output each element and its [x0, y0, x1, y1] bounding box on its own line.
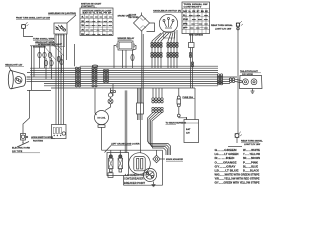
wire leader arrows	[52, 40, 62, 50]
wire ignition switch leads	[55, 34, 75, 125]
connector J2 harness plug column	[92, 67, 97, 87]
node label handlebar switch header	[48, 12, 76, 15]
contact breaker CB1	[143, 168, 156, 181]
lamp FL1 front turn signal	[22, 22, 29, 29]
svg-text:TURN SIGNAL WIRE: TURN SIGNAL WIRE	[33, 38, 55, 41]
ground engine	[152, 182, 156, 187]
node label spark advancer	[166, 158, 183, 161]
svg-text:ELECTRIC HORN: ELECTRIC HORN	[12, 148, 30, 150]
svg-text:BAT: BAT	[186, 128, 191, 131]
svg-text:FUSE 15A: FUSE 15A	[183, 96, 194, 99]
svg-text:REAR TURN SIGNAL: REAR TURN SIGNAL	[241, 140, 263, 143]
wire center drops to engine	[125, 31, 143, 153]
wire group B drops	[168, 30, 177, 68]
wire engine feed bundle	[148, 112, 171, 155]
generator source coils box	[107, 153, 129, 176]
lamp cluster indicator bulbs	[32, 46, 64, 91]
spark plug P1	[108, 88, 113, 104]
svg-text:BR……BROWN: BR……BROWN	[243, 158, 260, 160]
svg-text:W……WHITE: W……WHITE	[243, 150, 261, 152]
capacitor C1 condenser	[108, 173, 113, 178]
svg-text:Y……YELLOW: Y……YELLOW	[243, 154, 261, 156]
lamp TL1 tail stop light	[235, 76, 262, 89]
svg-text:2 o–o o–o o: 2 o–o o–o o	[81, 21, 114, 23]
svg-text:12V: 12V	[186, 133, 190, 135]
svg-text:WINKER RELAY: WINKER RELAY	[118, 37, 135, 40]
svg-text:CONT.BREAKER: CONT.BREAKER	[124, 177, 144, 181]
svg-text:TO MAIN HARNESS: TO MAIN HARNESS	[166, 122, 187, 125]
svg-text:SPARK ADVANCER: SPARK ADVANCER	[166, 158, 183, 161]
wire table2 drops	[189, 34, 195, 89]
fuse F1	[177, 88, 195, 120]
svg-text:LIGHT 12V 18W: LIGHT 12V 18W	[244, 144, 261, 146]
node label winker relay	[118, 37, 135, 40]
node label horn lower	[12, 148, 30, 153]
ignition coil T1	[95, 104, 111, 150]
engine right outline	[124, 150, 163, 185]
node label turn signal leaders	[33, 38, 64, 60]
svg-text:P……PINK: P……PINK	[243, 162, 258, 164]
svg-text:HANDLEBAR SWITCH (R): HANDLEBAR SWITCH (R)	[153, 10, 181, 13]
svg-text:5 o–o o o–o: 5 o–o o o–o	[81, 34, 114, 36]
svg-text:R o–o o: R o–o o	[183, 23, 210, 25]
svg-text:IG COIL: IG COIL	[98, 118, 107, 120]
wire bulb feeder	[30, 45, 56, 47]
svg-text:W/G……WHITE WITH GREEN STRIPE: W/G……WHITE WITH GREEN STRIPE	[215, 174, 261, 176]
svg-text:BL……BLUE: BL……BLUE	[243, 166, 258, 168]
svg-text:G/Y……GREEN WITH YELLOW STRIPE: G/Y……GREEN WITH YELLOW STRIPE	[215, 183, 260, 185]
connector J6 group B plugs	[167, 42, 178, 57]
node label rear turn signal right	[211, 24, 233, 30]
battery BT1	[184, 88, 199, 143]
node label tail brake light	[240, 70, 258, 76]
svg-text:GY……GRAY: GY……GRAY	[215, 165, 237, 168]
svg-text:L o–o o: L o–o o	[183, 15, 210, 17]
alternator G1 flywheel	[129, 153, 151, 175]
node label chart header	[81, 3, 102, 8]
lamp HL1 headlight	[8, 70, 25, 89]
svg-text:LB……LT BLUE: LB……LT BLUE	[215, 170, 240, 172]
svg-text:Y/R……YELLOW WITH RED STRIPE: Y/R……YELLOW WITH RED STRIPE	[215, 178, 261, 180]
wire headlight leads	[27, 77, 31, 81]
node label horn upper	[31, 137, 54, 142]
connector J3 harness plug column	[103, 69, 108, 82]
svg-text:WIRE HARNESS: WIRE HARNESS	[189, 33, 203, 36]
wire mid-right drops	[153, 88, 162, 98]
ground tail light	[251, 89, 255, 94]
wire horn drop	[23, 90, 30, 133]
connector J7 tail harness plugs	[217, 74, 234, 85]
svg-text:LEFT CRANKCASE COVER: LEFT CRANKCASE COVER	[111, 142, 140, 145]
svg-text:B……BLACK: B……BLACK	[243, 169, 259, 172]
node legend wire color codes	[215, 150, 261, 184]
svg-text:HEADLIGHT WIRE: HEADLIGHT WIRE	[35, 41, 55, 44]
svg-text:3 o–o–o o–o: 3 o–o–o o–o	[81, 25, 114, 27]
switch S1 ignition switch pictorial	[54, 23, 67, 34]
connector J4 drop plug	[111, 84, 116, 96]
horn H1	[21, 134, 28, 145]
table ignition continuity chart	[80, 8, 114, 36]
svg-text:P o o–o: P o o–o	[183, 28, 210, 30]
svg-text:G……GREEN: G……GREEN	[215, 150, 237, 152]
wire leader to ignition switch	[67, 15, 76, 23]
wire front turn signal to harness	[24, 29, 34, 37]
node label speedometer lights	[38, 44, 63, 46]
wire winker relay leads	[114, 46, 136, 69]
svg-text:HEADLIGHT 12V: HEADLIGHT 12V	[5, 64, 23, 67]
connector J8 switch coupler box	[52, 125, 67, 139]
spark advancer SA1	[153, 150, 165, 163]
node label rear turn signal lower	[241, 140, 263, 146]
lamp RR1 rear turn signal right	[236, 21, 243, 30]
svg-text:LIGHT 12V 18W: LIGHT 12V 18W	[215, 28, 232, 30]
rectifier D1 silicon rectifier	[129, 13, 155, 32]
connector J5 group A plugs	[151, 42, 162, 57]
svg-text:4 o o–o–o–o: 4 o o–o–o–o	[81, 29, 114, 32]
node label headlight	[5, 64, 23, 67]
connector J9 mid plugs	[152, 98, 163, 113]
svg-text:HANDLEBAR SW (LIGHTING): HANDLEBAR SW (LIGHTING)	[48, 12, 76, 15]
svg-text:ROUTING: ROUTING	[33, 140, 43, 142]
engine top rail	[102, 149, 163, 151]
lamp RL2 rear turn signal left	[228, 132, 242, 147]
svg-text:O……ORANGE: O……ORANGE	[215, 161, 238, 164]
wire group A drops	[152, 33, 169, 69]
svg-text:BREAKER POINT: BREAKER POINT	[124, 181, 145, 185]
svg-text:W L R P B E: W L R P B E	[183, 11, 209, 13]
svg-text:N o o o: N o o o	[183, 19, 210, 21]
node label ac generator	[124, 173, 145, 185]
svg-text:R……RED: R……RED	[215, 158, 236, 160]
svg-text:TAIL/STOPLIGHT: TAIL/STOPLIGHT	[240, 70, 258, 73]
wire coil feed	[95, 88, 97, 115]
switch S2 main switch circle	[153, 10, 183, 38]
svg-text:REAR TURN SIGNAL: REAR TURN SIGNAL	[211, 24, 233, 27]
svg-text:1 o o o o o o: 1 o o o o o o	[81, 17, 114, 19]
node label crankcase cover	[111, 142, 140, 145]
relay RY1 winker relay box	[116, 41, 134, 50]
wire coil stems	[111, 150, 121, 155]
connector J1 harness plug column	[75, 67, 80, 87]
wire rear turn signal drop	[237, 27, 239, 133]
node label spark unit top	[118, 15, 132, 18]
node label front turn signal light	[16, 16, 51, 19]
wire harness bus	[27, 65, 237, 90]
svg-text:LG……LT GREEN: LG……LT GREEN	[215, 154, 239, 156]
node label wire bundle	[166, 122, 187, 125]
table turn signal switch chart	[182, 2, 210, 36]
svg-text:FRONT TURN SIGNAL LIGHT 12V 18: FRONT TURN SIGNAL LIGHT 12V 18W	[16, 16, 51, 19]
